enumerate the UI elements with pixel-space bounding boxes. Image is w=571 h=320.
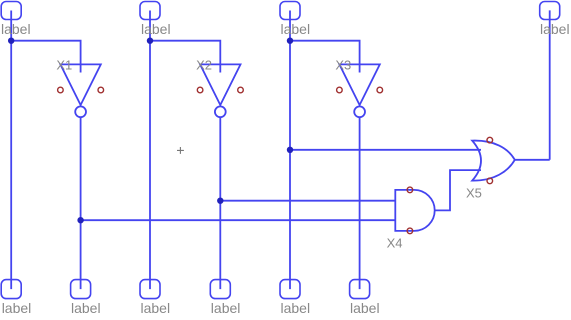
svg-text:label: label (71, 300, 101, 316)
svg-text:label: label (141, 21, 171, 37)
svg-text:X4: X4 (387, 236, 403, 251)
svg-text:label: label (281, 300, 311, 316)
svg-text:X3: X3 (335, 58, 351, 73)
svg-text:label: label (350, 300, 380, 316)
svg-text:label: label (2, 300, 32, 316)
svg-text:label: label (211, 300, 241, 316)
svg-text:label: label (540, 21, 570, 37)
svg-text:label: label (141, 300, 171, 316)
svg-text:X5: X5 (466, 186, 482, 201)
svg-text:X1: X1 (56, 58, 72, 73)
svg-text:label: label (281, 21, 311, 37)
svg-text:label: label (1, 21, 31, 37)
svg-text:X2: X2 (196, 58, 212, 73)
